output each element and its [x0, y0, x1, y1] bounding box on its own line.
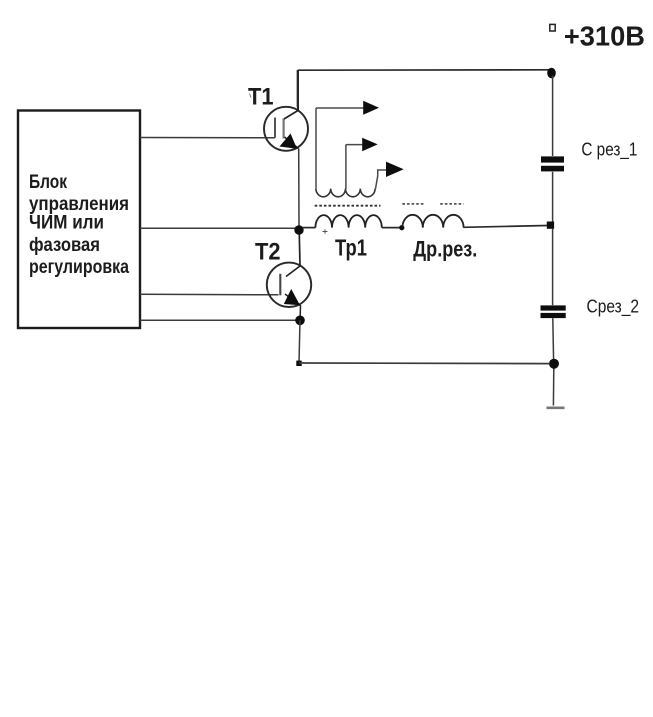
- svg-text:+310В: +310В: [564, 20, 645, 51]
- svg-text:Тр1: Тр1: [335, 235, 367, 261]
- svg-text:Блок: Блок: [29, 172, 67, 193]
- svg-text:Т2: Т2: [255, 239, 281, 266]
- svg-text:фазовая: фазовая: [29, 235, 100, 256]
- svg-text:ЧИМ или: ЧИМ или: [29, 213, 104, 234]
- svg-text:Т1: Т1: [248, 84, 274, 111]
- svg-text:регулировка: регулировка: [29, 257, 129, 278]
- svg-text:Др.рез.: Др.рез.: [413, 237, 477, 262]
- svg-text:С рез_1: С рез_1: [581, 138, 637, 160]
- svg-text:Срез_2: Срез_2: [587, 296, 640, 318]
